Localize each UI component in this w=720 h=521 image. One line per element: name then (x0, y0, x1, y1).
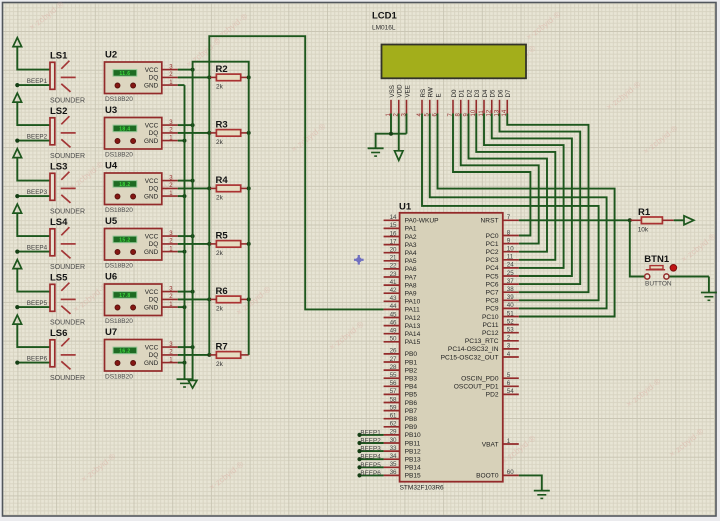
svg-text:PC6: PC6 (486, 281, 499, 288)
svg-text:18.2: 18.2 (119, 182, 130, 188)
svg-text:2k: 2k (216, 139, 224, 146)
svg-text:LCD1: LCD1 (372, 11, 398, 22)
svg-text:PA2: PA2 (405, 234, 417, 241)
svg-text:BEEP5: BEEP5 (27, 300, 48, 307)
svg-text:58: 58 (390, 396, 397, 403)
svg-text:BEEP6: BEEP6 (360, 470, 381, 477)
svg-text:U2: U2 (105, 50, 117, 61)
svg-text:DS18B20: DS18B20 (105, 207, 133, 214)
svg-text:PB2: PB2 (405, 367, 418, 374)
svg-text:D3: D3 (474, 89, 481, 97)
svg-text:35: 35 (390, 461, 397, 468)
svg-text:8: 8 (507, 229, 511, 236)
svg-text:U3: U3 (105, 105, 117, 116)
svg-text:39: 39 (507, 294, 514, 301)
svg-text:DQ: DQ (149, 241, 159, 248)
svg-text:PC13_RTC: PC13_RTC (465, 338, 499, 345)
svg-text:27: 27 (390, 356, 397, 363)
svg-text:PC3: PC3 (486, 257, 499, 264)
svg-text:STM32F103R6: STM32F103R6 (400, 484, 444, 491)
svg-text:PC9: PC9 (486, 306, 499, 313)
svg-text:4: 4 (507, 351, 511, 358)
svg-text:33: 33 (390, 445, 397, 452)
svg-text:PB11: PB11 (405, 440, 421, 447)
svg-text:D1: D1 (459, 89, 466, 97)
svg-text:PC4: PC4 (486, 265, 499, 272)
svg-text:50: 50 (390, 336, 397, 343)
svg-text:BEEP1: BEEP1 (27, 78, 48, 85)
svg-text:LS6: LS6 (50, 328, 67, 339)
svg-text:LS4: LS4 (50, 217, 68, 228)
svg-text:17.8: 17.8 (119, 293, 130, 299)
svg-text:PA14: PA14 (405, 331, 421, 338)
svg-text:DQ: DQ (149, 352, 159, 359)
svg-text:DS18B20: DS18B20 (105, 374, 133, 381)
svg-text:PB8: PB8 (405, 416, 418, 423)
svg-text:SOUNDER: SOUNDER (50, 375, 85, 382)
svg-text:2k: 2k (216, 194, 224, 201)
svg-text:7: 7 (507, 214, 511, 221)
svg-text:34: 34 (390, 453, 397, 460)
svg-text:GND: GND (144, 304, 159, 311)
svg-text:15: 15 (390, 222, 397, 229)
svg-text:61: 61 (390, 413, 397, 420)
svg-text:5: 5 (507, 372, 511, 379)
svg-text:R7: R7 (216, 342, 228, 353)
svg-text:PC11: PC11 (482, 322, 498, 329)
svg-text:PD2: PD2 (486, 392, 499, 399)
svg-text:55: 55 (390, 372, 397, 379)
svg-text:VCC: VCC (145, 122, 159, 129)
svg-text:R4: R4 (216, 175, 229, 186)
svg-text:GND: GND (144, 193, 159, 200)
svg-text:BEEP3: BEEP3 (360, 446, 381, 453)
svg-text:D0: D0 (451, 89, 458, 97)
svg-text:VEE: VEE (404, 85, 411, 97)
svg-text:PC2: PC2 (486, 249, 499, 256)
svg-text:U5: U5 (105, 216, 118, 227)
svg-text:49: 49 (390, 328, 397, 335)
svg-text:52: 52 (507, 318, 514, 325)
svg-text:62: 62 (390, 421, 397, 428)
svg-text:PA1: PA1 (405, 226, 417, 233)
svg-text:20: 20 (390, 247, 397, 254)
svg-text:R6: R6 (216, 286, 228, 297)
svg-text:PB14: PB14 (405, 465, 421, 472)
svg-text:36: 36 (390, 469, 397, 476)
svg-text:DS18B20: DS18B20 (105, 152, 133, 159)
svg-text:OSCOUT_PD1: OSCOUT_PD1 (454, 384, 499, 391)
svg-text:BOOT0: BOOT0 (476, 473, 499, 480)
svg-text:LS2: LS2 (50, 106, 67, 117)
svg-text:2: 2 (507, 335, 511, 342)
svg-text:PA7: PA7 (405, 274, 417, 281)
svg-text:DQ: DQ (149, 130, 159, 137)
svg-text:22: 22 (390, 263, 397, 270)
svg-text:VCC: VCC (145, 289, 159, 296)
svg-text:PC1: PC1 (486, 241, 499, 248)
svg-text:PC14-OSC32_IN: PC14-OSC32_IN (448, 346, 499, 353)
svg-text:57: 57 (390, 388, 397, 395)
svg-text:R5: R5 (216, 231, 229, 242)
svg-text:2k: 2k (216, 361, 224, 368)
svg-text:U7: U7 (105, 327, 117, 338)
svg-text:10: 10 (507, 246, 514, 253)
svg-text:D7: D7 (505, 89, 512, 97)
svg-text:SOUNDER: SOUNDER (50, 153, 85, 160)
svg-text:PC12: PC12 (482, 330, 499, 337)
svg-text:23: 23 (390, 271, 397, 278)
svg-text:30: 30 (390, 437, 397, 444)
svg-text:PC0: PC0 (486, 233, 499, 240)
svg-text:BTN1: BTN1 (644, 254, 670, 265)
svg-text:LS3: LS3 (50, 162, 67, 173)
svg-text:BUTTON: BUTTON (645, 280, 672, 287)
svg-text:54: 54 (507, 388, 514, 395)
svg-text:PC15-OSC32_OUT: PC15-OSC32_OUT (441, 354, 499, 361)
svg-text:PA4: PA4 (405, 250, 417, 257)
svg-text:PC5: PC5 (486, 273, 499, 280)
svg-text:PB3: PB3 (405, 376, 418, 383)
svg-text:PC8: PC8 (486, 298, 499, 305)
svg-text:2k: 2k (216, 305, 224, 312)
svg-text:53: 53 (507, 327, 514, 334)
svg-text:45: 45 (390, 311, 397, 318)
svg-text:6: 6 (507, 380, 511, 387)
svg-text:GND: GND (144, 360, 159, 367)
svg-text:3: 3 (507, 343, 511, 350)
svg-text:56: 56 (390, 380, 397, 387)
svg-text:LM016L: LM016L (372, 25, 396, 32)
svg-text:29: 29 (390, 429, 397, 436)
svg-text:U4: U4 (105, 161, 118, 172)
svg-text:D6: D6 (497, 89, 504, 97)
svg-text:DQ: DQ (149, 297, 159, 304)
svg-text:16: 16 (390, 230, 397, 237)
svg-text:DS18B20: DS18B20 (105, 263, 133, 270)
svg-text:VBAT: VBAT (482, 441, 499, 448)
svg-text:BEEP2: BEEP2 (360, 438, 381, 445)
svg-text:44: 44 (390, 303, 397, 310)
svg-text:DQ: DQ (149, 75, 159, 82)
svg-text:15.2: 15.2 (119, 238, 130, 244)
svg-text:PA9: PA9 (405, 291, 417, 298)
svg-text:14: 14 (390, 214, 397, 221)
svg-text:PB4: PB4 (405, 384, 418, 391)
svg-text:60: 60 (507, 469, 514, 476)
svg-text:51: 51 (507, 310, 514, 317)
svg-text:GND: GND (144, 249, 159, 256)
svg-text:16.2: 16.2 (119, 349, 130, 355)
svg-text:RS: RS (420, 89, 427, 98)
svg-text:11.6: 11.6 (119, 71, 130, 77)
svg-text:SOUNDER: SOUNDER (50, 264, 85, 271)
svg-text:LS1: LS1 (50, 51, 68, 62)
svg-text:DS18B20: DS18B20 (105, 96, 133, 103)
svg-text:46: 46 (390, 319, 397, 326)
svg-text:PA6: PA6 (405, 266, 417, 273)
svg-text:PB13: PB13 (405, 457, 421, 464)
svg-text:VCC: VCC (145, 344, 159, 351)
svg-text:BEEP4: BEEP4 (360, 454, 381, 461)
svg-text:PB0: PB0 (405, 351, 418, 358)
svg-text:PA3: PA3 (405, 242, 417, 249)
svg-text:R2: R2 (216, 64, 228, 75)
svg-text:26: 26 (390, 348, 397, 355)
svg-text:SOUNDER: SOUNDER (50, 319, 85, 326)
svg-text:42: 42 (390, 287, 397, 294)
svg-text:17: 17 (390, 238, 397, 245)
svg-text:PB1: PB1 (405, 359, 418, 366)
svg-text:LS5: LS5 (50, 273, 68, 284)
svg-text:1: 1 (507, 438, 511, 445)
svg-text:PB7: PB7 (405, 408, 418, 415)
svg-text:D5: D5 (490, 89, 497, 97)
svg-text:RW: RW (428, 87, 435, 97)
svg-text:NRST: NRST (481, 218, 499, 225)
svg-text:R1: R1 (638, 207, 651, 218)
svg-text:PA13: PA13 (405, 323, 421, 330)
svg-text:VSS: VSS (389, 85, 396, 97)
svg-text:18.4: 18.4 (119, 127, 130, 133)
svg-text:BEEP6: BEEP6 (27, 355, 48, 362)
svg-text:PA0-WKUP: PA0-WKUP (405, 218, 440, 225)
svg-text:VDD: VDD (397, 84, 404, 98)
svg-text:21: 21 (390, 255, 397, 262)
svg-text:59: 59 (390, 404, 397, 411)
svg-text:BEEP3: BEEP3 (27, 189, 48, 196)
svg-text:PB5: PB5 (405, 392, 418, 399)
svg-text:PB12: PB12 (405, 448, 421, 455)
svg-text:11: 11 (507, 254, 514, 261)
svg-text:E: E (435, 93, 442, 97)
svg-text:VCC: VCC (145, 67, 159, 74)
svg-text:2k: 2k (216, 83, 224, 90)
svg-text:28: 28 (390, 364, 397, 371)
svg-text:43: 43 (390, 295, 397, 302)
svg-text:PB9: PB9 (405, 424, 418, 431)
svg-text:BEEP2: BEEP2 (27, 133, 48, 140)
svg-text:2k: 2k (216, 250, 224, 257)
svg-text:U1: U1 (399, 202, 412, 213)
svg-text:PA5: PA5 (405, 258, 417, 265)
svg-text:37: 37 (507, 278, 514, 285)
svg-text:DQ: DQ (149, 186, 159, 193)
svg-text:R3: R3 (216, 120, 228, 131)
svg-text:BEEP5: BEEP5 (360, 462, 381, 469)
svg-text:38: 38 (507, 286, 514, 293)
svg-text:PC10: PC10 (482, 314, 499, 321)
svg-text:U6: U6 (105, 272, 117, 283)
svg-text:25: 25 (507, 270, 514, 277)
svg-text:PC7: PC7 (486, 290, 499, 297)
svg-text:VCC: VCC (145, 233, 159, 240)
svg-text:SOUNDER: SOUNDER (50, 208, 85, 215)
svg-text:24: 24 (507, 262, 514, 269)
svg-text:40: 40 (507, 302, 514, 309)
svg-text:BEEP4: BEEP4 (27, 244, 48, 251)
svg-text:PA10: PA10 (405, 299, 421, 306)
svg-text:10k: 10k (638, 227, 649, 234)
svg-text:D4: D4 (482, 89, 489, 97)
svg-text:VCC: VCC (145, 178, 159, 185)
svg-text:PA15: PA15 (405, 339, 421, 346)
svg-text:D2: D2 (466, 89, 473, 97)
svg-text:SOUNDER: SOUNDER (50, 97, 85, 104)
svg-text:PA12: PA12 (405, 315, 421, 322)
svg-text:9: 9 (507, 237, 511, 244)
svg-text:OSCIN_PD0: OSCIN_PD0 (461, 376, 499, 383)
svg-text:PB6: PB6 (405, 400, 418, 407)
svg-text:DS18B20: DS18B20 (105, 318, 133, 325)
svg-text:41: 41 (390, 279, 397, 286)
svg-text:PA11: PA11 (405, 307, 420, 314)
svg-text:PB15: PB15 (405, 473, 421, 480)
svg-text:PA8: PA8 (405, 282, 417, 289)
svg-text:BEEP1: BEEP1 (360, 429, 381, 436)
svg-text:GND: GND (144, 138, 159, 145)
svg-text:PB10: PB10 (405, 432, 421, 439)
svg-text:GND: GND (144, 82, 159, 89)
